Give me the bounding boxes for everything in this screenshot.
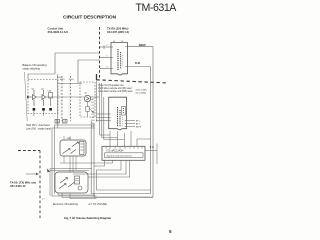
svg-text:G-9: G-9 [92,117,95,119]
U1 pin labels [107,41,124,69]
label control unit [48,26,69,34]
svg-text:A-7: A-7 [92,98,95,101]
svg-text:High when remote unit (W) used: High when remote unit (W) used [99,87,133,90]
label C-15 [69,79,75,81]
label to volume [89,203,108,206]
U1 pin ticks [111,47,128,69]
svg-text:B-15: B-15 [60,79,65,81]
svg-text:Control Unit: Control Unit [48,26,64,30]
wire loop from U2 area down left side [52,125,97,196]
resistor R7 under Q3 [86,102,93,117]
label balance VR sampling [23,64,48,71]
svg-text:range switching: range switching [23,67,41,70]
transistor Q2 [41,89,46,107]
wire main row through sampling transistors [27,84,99,98]
label electronic VR switching [53,203,79,206]
label TA-55 MHz unit [10,180,36,188]
op-amp U3 speaker amplifier [102,146,145,160]
wire from connector to U1 pin (top) [100,46,111,69]
label high/low dual band [26,124,51,131]
board boundary dashed vertical (control / TX-RX) [99,27,101,80]
wire pins out of U2 right [127,121,135,127]
svg-text:Speaker amp (vol unit) sw: Speaker amp (vol unit) sw [107,155,133,158]
arrowhead on R7 leader [92,111,94,113]
sampling circuit dashed box [28,80,58,114]
leader from balance label [25,72,28,121]
title TM-631A [136,2,178,14]
heading CIRCUIT DESCRIPTION [63,14,117,20]
svg-text:A-7 TO VOLUME: A-7 TO VOLUME [89,203,108,206]
wire VR1 bottom leads [64,136,76,172]
svg-text:C-15: C-15 [69,79,75,81]
svg-text:AF 1: AF 1 [136,120,140,123]
node BEEP [139,43,146,47]
wire VR2 surround bottom [58,193,153,199]
label TX-RX unit [107,26,129,34]
note text under boundary [99,84,134,93]
VR2 internals [59,176,82,190]
svg-text:BEEP: BEEP [139,43,146,47]
svg-text:TM-631A: TM-631A [136,2,178,14]
U2 pin ticks [109,114,127,127]
board boundary dashed horizontal [97,74,169,83]
connector arrow at MHz boundary [26,173,36,175]
connector shells above VR1 [55,120,67,124]
svg-text:2: 2 [107,45,108,47]
svg-text:IC5 uPC1242H: IC5 uPC1242H [107,150,124,153]
svg-text:B-2: B-2 [92,102,95,104]
pin labels right of U2 [136,120,142,129]
svg-text:5: 5 [107,56,108,58]
svg-text:5: 5 [169,229,172,234]
wire stubs below pads [34,111,44,116]
svg-text:14: 14 [113,41,115,43]
wire left taps from boundary to control side [28,53,100,84]
svg-text:TX-RX (220 MHz): TX-RX (220 MHz) [107,26,128,30]
arrowhead at MHz boundary [36,173,39,175]
svg-text:9: 9 [107,67,108,69]
svg-text:TA-55: (TX) MHz unit: TA-55: (TX) MHz unit [10,180,36,184]
connector pin ticks B-15 [60,85,70,115]
VR1 label [67,138,73,140]
U1 internal vertical label [118,49,123,71]
svg-text:E-6: E-6 [92,111,95,113]
node arrow into sampling row [27,96,30,99]
caption Fig. 7 [64,216,112,220]
wire D-M to right bus [91,67,150,194]
svg-text:D-5: D-5 [92,108,95,110]
svg-text:Low when remote unit (DM) used: Low when remote unit (DM) used [99,90,134,93]
connector boundary dashed verticals [62,76,71,121]
wire board edge bundle [96,80,98,122]
VR1 internals [63,142,85,155]
U3 pin ticks [106,147,142,149]
svg-text:AF 2: AF 2 [136,123,140,126]
resistor R1 label block [48,91,53,107]
svg-text:VR 1: VR 1 [67,138,73,140]
svg-text:13: 13 [121,41,123,43]
wire BEEP to right bus [94,47,153,197]
svg-text:F-8: F-8 [92,114,95,116]
wire bundle U2 bottom to amp [100,83,151,146]
transistor Q1 [32,89,37,107]
node D-M [135,61,140,65]
wire right bus third [145,144,157,165]
pad squares [33,108,52,111]
U3 labels [105,150,144,158]
label B-16 [57,77,62,79]
wire pins into U2 left [96,114,109,121]
svg-text:K-2: K-2 [92,126,95,128]
volume VR block 1 [60,140,86,156]
junction dots on bus [150,146,154,148]
svg-text:Fig. 7 AF Volume Switching Di: Fig. 7 AF Volume Switching Diagram [64,216,112,220]
wire amp bottom fanout [60,160,151,190]
svg-text:X44-007-(W/O 14): X44-007-(W/O 14) [107,30,129,34]
op IC U1 (beep/D-M switch, board edge box) [111,43,128,76]
label B-15 [60,79,65,81]
svg-text:H-3: H-3 [92,120,95,122]
svg-text:Note: No.15 speaker out: Note: No.15 speaker out [99,84,124,87]
svg-text:X53-3290-12 A/3: X53-3290-12 A/3 [48,30,69,34]
volume VR block 2 [55,172,88,193]
relay unit dashed box right [80,82,95,117]
svg-text:D-M: D-M [135,61,140,65]
svg-text:0V at (DM): 0V at (DM) [136,91,147,94]
MHz unit boundary dashed [18,151,40,219]
arrowhead into VR2 [47,169,50,173]
svg-text:Electronic VR switching: Electronic VR switching [53,203,79,206]
svg-text:J-1: J-1 [92,123,95,125]
label J7 [42,198,46,200]
wire VR2 surround top [50,169,92,197]
svg-text:MUTE: MUTE [136,127,142,129]
svg-text:X57-3400-12: X57-3400-12 [10,184,26,188]
wire vertical feed to VR loop [57,74,59,128]
svg-text:CIRCUIT DESCRIPTION: CIRCUIT DESCRIPTION [63,14,117,20]
node voltage labels [136,88,147,94]
transistor Q3 (circle) [84,93,90,102]
pin list column [92,98,95,128]
svg-text:4.5V at (W): 4.5V at (W) [136,88,147,91]
U2 internal label [118,107,126,128]
page number 5 [169,229,172,234]
IC U2 (control IC board edge box) [109,97,127,130]
svg-text:Low (0V) : single band: Low (0V) : single band [26,127,51,130]
svg-text:C-4: C-4 [92,105,95,107]
